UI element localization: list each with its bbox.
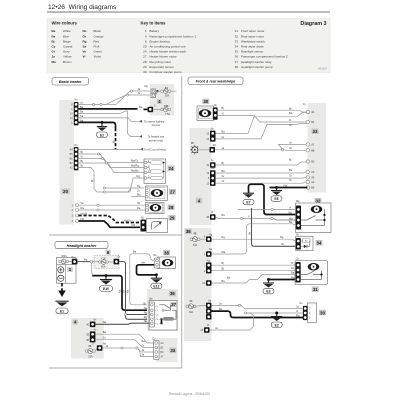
wire Ba to switch (staircase up)	[216, 113, 308, 134]
svg-text:31: 31	[313, 287, 318, 292]
svg-text:38: 38	[164, 250, 169, 255]
svg-text:Grey: Grey	[63, 50, 70, 54]
svg-text:Na: Na	[80, 118, 84, 122]
svg-text:Ma/Gr: Ma/Gr	[131, 159, 138, 163]
headlight washer bottom	[49, 367, 182, 369]
svg-text:Ma: Ma	[222, 250, 226, 254]
svg-text:32: 32	[316, 199, 321, 204]
wire Rg to rear wiper diode	[212, 239, 297, 241]
svg-text:35: 35	[235, 50, 239, 54]
fuse F4	[161, 90, 164, 93]
svg-text:Headlight washer pump: Headlight washer pump	[241, 65, 273, 69]
svg-text:Gr: Gr	[118, 256, 121, 259]
svg-text:Na: Na	[142, 261, 146, 265]
svg-text:Rg: Rg	[144, 315, 148, 319]
svg-text:E2: E2	[100, 133, 104, 137]
rain/light sensor U35	[190, 142, 216, 155]
wire Vi pump to switch B4	[218, 115, 308, 122]
svg-text:Ma: Ma	[137, 193, 141, 197]
svg-text:Sa: Sa	[83, 45, 87, 49]
svg-text:Ma/Rg: Ma/Rg	[131, 164, 139, 168]
pump earth loop to E13	[137, 265, 156, 275]
svg-text:Rg: Rg	[144, 311, 148, 315]
svg-text:B4: B4	[311, 120, 315, 124]
connector pin 4	[206, 251, 212, 257]
headlight washer relay U37	[149, 298, 177, 330]
svg-text:Diagram 3: Diagram 3	[300, 21, 326, 27]
svg-text:Or: Or	[222, 179, 225, 183]
fusebox pin 40	[90, 322, 96, 328]
svg-text:Na: Na	[103, 320, 107, 324]
svg-text:Ra: Ra	[81, 206, 85, 210]
svg-text:Nd/Ja: Nd/Ja	[81, 212, 88, 216]
svg-text:H33084: H33084	[318, 67, 328, 71]
svg-text:Ba: Ba	[139, 105, 143, 109]
wire colour table	[52, 29, 104, 64]
svg-text:screen relay: screen relay	[149, 139, 164, 143]
rear wiper motor U32	[296, 200, 332, 233]
svg-text:Ve: Ve	[83, 50, 87, 54]
svg-text:Rg: Rg	[296, 314, 300, 318]
svg-text:Rg: Rg	[83, 39, 87, 43]
svg-text:B2: B2	[311, 160, 315, 164]
svg-text:Engine fusebox: Engine fusebox	[150, 39, 171, 43]
wire Ma from pin 4	[212, 251, 247, 255]
svg-text:Wash/wipe switch: Wash/wipe switch	[241, 39, 265, 43]
wire Ja sensor to switch A1/B4	[215, 149, 282, 151]
svg-text:20: 20	[143, 45, 147, 49]
item tag 1	[67, 267, 73, 272]
svg-text:Rear wiper diode: Rear wiper diode	[241, 45, 264, 49]
svg-text:Ba: Ba	[291, 270, 295, 274]
svg-text:37: 37	[235, 60, 239, 64]
connector 20/A (pins 8,2,14,13,1)	[70, 99, 78, 126]
svg-text:A1: A1	[311, 143, 315, 147]
basic heater / headlight washer divider	[49, 234, 182, 236]
svg-text:Heater blower motor: Heater blower motor	[150, 55, 177, 59]
earth E13	[151, 275, 162, 289]
fuse F36	[148, 107, 154, 113]
earth E1	[55, 301, 68, 314]
washer pump U30 (front)	[197, 104, 218, 121]
svg-text:Nd/Ja: Nd/Ja	[124, 218, 131, 222]
fusebox panel 36 (right)	[184, 228, 212, 341]
svg-text:Gr: Gr	[289, 123, 292, 127]
relay contact	[160, 305, 171, 310]
svg-text:Passenger compartment fusebox: Passenger compartment fusebox 2	[241, 55, 288, 59]
arrow: To heated rear screen relay	[139, 135, 164, 143]
svg-text:Crystal: Crystal	[63, 45, 73, 49]
fuse F4 (36 panel)	[186, 300, 206, 314]
svg-text:2B: 2B	[86, 339, 89, 342]
svg-text:32: 32	[235, 34, 239, 38]
svg-text:Gr: Gr	[222, 135, 225, 139]
key to items column 1	[143, 29, 196, 74]
svg-text:30: 30	[203, 99, 208, 104]
svg-text:Rg: Rg	[137, 184, 141, 188]
engine fusebox U6 with fuse F56	[90, 250, 120, 269]
wires Ba/Gr/Or to switch A3/A6/A2	[216, 172, 308, 173]
svg-text:30: 30	[143, 70, 147, 74]
svg-text:Vi: Vi	[83, 55, 86, 59]
top rule	[47, 11, 330, 13]
svg-text:Front wiper motor: Front wiper motor	[241, 29, 265, 33]
thick earth wire E3 to front wiper motor	[269, 279, 297, 281]
svg-text:No: No	[83, 29, 87, 33]
battery output connector	[72, 259, 78, 265]
svg-text:E8: E8	[274, 197, 278, 201]
earth E2 on pump middle wire	[275, 312, 278, 315]
fuse F8 and pin 6	[190, 232, 213, 246]
wire Ja to rear washer pump	[212, 305, 304, 308]
arrow: To interior lighting dimmer	[139, 119, 165, 127]
svg-text:E13: E13	[153, 285, 159, 289]
fusebox U4 (passenger compartment fusebox 1)	[145, 84, 177, 116]
svg-text:Rain/light sensor: Rain/light sensor	[241, 50, 263, 54]
svg-text:Violet: Violet	[94, 55, 102, 59]
svg-text:Rg: Rg	[84, 257, 88, 261]
svg-text:29: 29	[170, 216, 175, 221]
svg-text:Ba: Ba	[126, 289, 130, 293]
svg-text:Rg: Rg	[291, 275, 295, 279]
wire Ja pin8 to fusebox	[78, 91, 151, 104]
svg-text:3A: 3A	[202, 282, 205, 285]
svg-text:Front & rear wash/wipe: Front & rear wash/wipe	[196, 80, 236, 84]
svg-text:Bj: Bj	[112, 140, 116, 143]
wash/wipe switch U33 connector (headlight washer side)	[153, 337, 178, 362]
svg-text:E7: E7	[246, 201, 250, 205]
svg-text:A3: A3	[311, 170, 315, 174]
svg-text:Key to items: Key to items	[141, 21, 167, 26]
plus terminal	[58, 267, 64, 273]
svg-text:To heated rear: To heated rear	[148, 135, 165, 139]
wire Rg battery to engine fusebox	[77, 261, 90, 263]
svg-text:Nd: Nd	[81, 217, 85, 221]
heater blower motor U27	[146, 186, 168, 201]
svg-text:28: 28	[143, 60, 147, 64]
svg-text:Ma/Ba: Ma/Ba	[131, 169, 139, 173]
section label: Front & rear wash/wipe	[188, 77, 243, 85]
svg-text:Headlight washer relay: Headlight washer relay	[241, 60, 272, 64]
svg-text:Ba: Ba	[222, 213, 226, 217]
svg-text:Nd: Nd	[132, 223, 136, 227]
svg-text:Renault Laguna - SRM4283: Renault Laguna - SRM4283	[169, 392, 210, 396]
svg-text:Red: Red	[94, 39, 100, 43]
wire Ve dark vertical to diode	[252, 208, 297, 246]
svg-text:30A: 30A	[193, 244, 198, 247]
Gr wire from engine fusebox down to relay pins C5/C6	[119, 262, 125, 314]
svg-text:To interior lighting: To interior lighting	[144, 119, 165, 123]
svg-text:36: 36	[235, 55, 239, 59]
connector pin 34	[210, 162, 216, 168]
svg-text:Be: Be	[52, 34, 56, 38]
svg-text:F36: F36	[164, 105, 169, 108]
svg-text:B6: B6	[311, 186, 315, 190]
svg-text:Rg: Rg	[137, 174, 141, 178]
svg-text:dimmer: dimmer	[152, 123, 161, 127]
wire Vi from pin 33 up to pump middle	[210, 313, 254, 330]
svg-text:Air conditioning control unit: Air conditioning control unit	[150, 45, 186, 49]
section dividers	[49, 76, 182, 368]
svg-text:Rear wiper motor: Rear wiper motor	[241, 34, 264, 38]
wire Ba thick pin2 to fuse F36 connector	[78, 108, 137, 110]
wire Gr to wash/wipe switch	[95, 340, 153, 348]
svg-text:Ba: Ba	[222, 169, 226, 173]
svg-text:Gr: Gr	[137, 189, 140, 193]
svg-text:Brown: Brown	[63, 60, 72, 64]
arrow: To A/C cut-off relay	[78, 147, 166, 151]
thick wire from E2 node down (dashed Bj)	[103, 122, 116, 128]
item tag 20	[62, 189, 70, 195]
svg-text:Passenger compartment fusebox: Passenger compartment fusebox 1	[150, 34, 197, 38]
svg-text:33: 33	[235, 39, 239, 43]
svg-text:Blue: Blue	[63, 34, 69, 38]
section label: Basic heater	[52, 78, 89, 86]
wires Bj/Bj to front wiper motor	[212, 264, 297, 266]
wire Nd solid to evaporator sensor	[79, 221, 141, 227]
svg-text:33: 33	[170, 348, 175, 353]
svg-text:7.5A: 7.5A	[165, 113, 170, 116]
svg-text:Gr: Gr	[122, 290, 126, 293]
thick earth wire to switch B6 from E8	[270, 187, 308, 189]
svg-text:Ra: Ra	[137, 206, 141, 210]
svg-text:Ba: Ba	[227, 275, 231, 279]
svg-text:20: 20	[63, 189, 68, 194]
svg-text:To A/C cut-off relay: To A/C cut-off relay	[144, 147, 167, 151]
earth E8	[271, 188, 282, 202]
svg-text:Headlight washer: Headlight washer	[67, 244, 97, 248]
wires from switch to rear wiper motor	[238, 209, 296, 211]
svg-text:Ba: Ba	[133, 250, 137, 254]
svg-text:A6: A6	[311, 176, 315, 180]
svg-text:V: V	[248, 214, 250, 218]
svg-text:30A: 30A	[189, 311, 194, 314]
wire Na thick pin1 to earth E2	[78, 121, 113, 123]
input pin squares	[151, 89, 156, 93]
svg-text:Rg: Rg	[145, 84, 149, 88]
wire Va to recycling motor	[79, 204, 146, 206]
svg-text:300A: 300A	[61, 255, 67, 258]
battery U1	[57, 255, 78, 283]
svg-text:Ma: Ma	[52, 60, 56, 64]
svg-text:34: 34	[317, 241, 322, 246]
svg-text:E1: E1	[60, 310, 64, 314]
connector pin 33	[204, 327, 210, 333]
relay coil	[163, 317, 174, 321]
wire Ba pin14 to heated rear screen relay branch	[78, 111, 139, 137]
svg-text:Ba: Ba	[80, 109, 84, 113]
connector pin 3B	[210, 214, 216, 220]
earth E2	[97, 121, 108, 138]
svg-text:24: 24	[143, 50, 147, 54]
svg-text:29: 29	[143, 65, 147, 69]
minus terminal	[58, 275, 64, 281]
svg-text:White: White	[63, 29, 71, 33]
svg-text:Battery: Battery	[150, 29, 160, 33]
wire Sa pin13 to interior lighting dimmer arrow	[78, 118, 139, 121]
svg-text:Green: Green	[94, 50, 103, 54]
fusebox output connector	[114, 259, 120, 265]
connector 1b/2b	[207, 127, 216, 141]
svg-text:Ba: Ba	[103, 330, 107, 334]
svg-text:Na: Na	[289, 210, 293, 214]
svg-text:36: 36	[186, 229, 191, 234]
svg-text:Ba: Ba	[142, 339, 146, 343]
svg-text:Gr: Gr	[291, 266, 294, 270]
connector pins (Ja / thick / Ve)	[206, 303, 212, 309]
svg-text:Ba: Ba	[289, 111, 293, 115]
wire Bj to switch B2	[216, 162, 308, 165]
svg-text:Wire colours: Wire colours	[52, 21, 78, 26]
staircase wires to resistor pack	[78, 154, 143, 163]
wire Bj pump to switch A4	[218, 110, 308, 112]
svg-text:27: 27	[143, 55, 147, 59]
rear washer pump U30 connector	[300, 302, 317, 323]
thick earth wire E7 to rear wiper motor	[249, 184, 296, 214]
svg-text:Orange: Orange	[94, 34, 104, 38]
wire Nd/Ja dashed to evaporator sensor	[79, 216, 141, 223]
svg-text:Gr: Gr	[289, 174, 292, 178]
item tag 24	[168, 166, 175, 172]
connector Ma (3 pins)	[207, 167, 216, 186]
wire Je branch to fusebox	[102, 95, 151, 104]
branch Ja to A7	[138, 349, 154, 357]
svg-text:Front/rear washer pump: Front/rear washer pump	[150, 70, 182, 74]
svg-text:Basic heater: Basic heater	[59, 80, 82, 84]
battery earth wire to E1	[61, 283, 63, 290]
svg-text:Rg: Rg	[280, 235, 284, 239]
thick wire Rg to rear washer pump	[212, 311, 304, 317]
svg-text:Beige: Beige	[63, 39, 71, 43]
svg-text:38: 38	[235, 65, 239, 69]
svg-text:Sa: Sa	[80, 114, 84, 118]
svg-text:Recycling motor: Recycling motor	[150, 60, 172, 64]
svg-text:Ma: Ma	[289, 216, 293, 220]
svg-text:E10: E10	[103, 287, 109, 291]
wire Ja to wash/wipe switch	[102, 348, 153, 352]
svg-text:Pink: Pink	[94, 45, 100, 49]
svg-text:30A: 30A	[165, 95, 170, 98]
svg-text:37: 37	[171, 302, 176, 307]
wire Ba to wash/wipe switch	[95, 334, 153, 343]
connector No (pins 1,2)	[204, 259, 212, 273]
passenger fusebox 1 panel (4) lower	[71, 318, 104, 359]
earth E3	[263, 280, 274, 294]
svg-text:Or: Or	[289, 178, 292, 182]
wire to pack pin 2	[106, 178, 144, 192]
wire Gr to switch (staircase up)	[216, 124, 308, 139]
light wire from pump pin1 to relay pin C1	[130, 254, 154, 305]
svg-text:12•26 Wiring diagrams: 12•26 Wiring diagrams	[48, 4, 117, 11]
svg-text:Bj: Bj	[52, 39, 55, 43]
wire Ra to recycling motor	[79, 209, 146, 211]
fusebox panel 4 (right)	[190, 128, 212, 225]
svg-text:33: 33	[313, 129, 318, 134]
earth E10	[100, 276, 113, 292]
svg-text:36: 36	[170, 291, 175, 296]
svg-text:Ba: Ba	[222, 129, 226, 133]
wire Ba staircase to front wiper motor	[212, 275, 297, 284]
svg-text:Na: Na	[117, 289, 121, 293]
svg-text:31: 31	[235, 29, 239, 33]
column divider	[181, 76, 183, 368]
svg-text:Ja: Ja	[52, 55, 56, 59]
wire A2 down and to blower motor	[78, 168, 143, 193]
svg-text:3B: 3B	[206, 216, 209, 219]
rear wiper diode U34	[296, 233, 314, 250]
relay feed wires	[122, 307, 149, 310]
svg-text:Gr: Gr	[142, 344, 145, 348]
connector 20/B (pins A4,B5,B6,B2,A2)	[70, 144, 79, 171]
svg-text:Black: Black	[94, 29, 102, 33]
evaporator sensor U29	[141, 216, 168, 232]
svg-text:E2: E2	[275, 323, 279, 327]
svg-text:Ba: Ba	[222, 279, 226, 283]
wash/wipe switch U33 panel	[303, 103, 326, 193]
svg-text:Ba: Ba	[289, 168, 293, 172]
svg-text:60A: 60A	[101, 266, 106, 269]
svg-text:Ba: Ba	[80, 105, 84, 109]
svg-text:Na: Na	[144, 319, 148, 323]
svg-text:27: 27	[170, 190, 175, 195]
svg-text:24: 24	[169, 166, 174, 171]
key to items column 2	[235, 29, 288, 69]
section label: Headlight washer	[55, 241, 108, 248]
header key box	[47, 19, 330, 75]
supply junction and earth E10	[92, 276, 122, 308]
front wiper motor U31	[295, 258, 328, 285]
svg-text:Cy: Cy	[52, 45, 56, 49]
connector pin 3A	[206, 280, 212, 286]
earth E7	[243, 193, 254, 205]
connector 20/C (pins 1,2,3,4)	[72, 204, 79, 223]
svg-text:Na: Na	[144, 306, 148, 310]
svg-text:Yellow: Yellow	[63, 55, 72, 59]
svg-text:30: 30	[320, 310, 325, 315]
svg-text:Gr: Gr	[222, 174, 225, 178]
svg-text:A2: A2	[311, 180, 315, 184]
svg-text:Ba: Ba	[289, 220, 293, 224]
A/C control unit U20 panel	[60, 100, 75, 225]
svg-text:Na: Na	[284, 183, 288, 187]
svg-text:Evaporator sensor: Evaporator sensor	[150, 65, 175, 69]
recycling motor U28	[146, 203, 165, 214]
heater blower resistor pack U24	[144, 159, 166, 184]
Na wire pin40 to relay	[95, 323, 149, 324]
svg-text:Ba: Ba	[52, 29, 56, 33]
headlight washer pump U38	[154, 254, 176, 268]
svg-text:20A: 20A	[88, 356, 93, 359]
svg-text:34: 34	[235, 45, 239, 49]
svg-text:28: 28	[169, 205, 174, 210]
passenger fusebox 2 panel (36)	[147, 289, 178, 331]
svg-text:B8: B8	[311, 149, 315, 153]
svg-text:Gr: Gr	[103, 336, 106, 340]
svg-text:Be: Be	[219, 307, 223, 311]
svg-text:Heater blower resistor pack: Heater blower resistor pack	[150, 50, 187, 54]
svg-text:E3: E3	[266, 290, 270, 294]
svg-text:A4: A4	[311, 110, 315, 114]
fusebox pins 35/2B	[90, 331, 96, 342]
svg-text:Rg: Rg	[222, 235, 226, 239]
